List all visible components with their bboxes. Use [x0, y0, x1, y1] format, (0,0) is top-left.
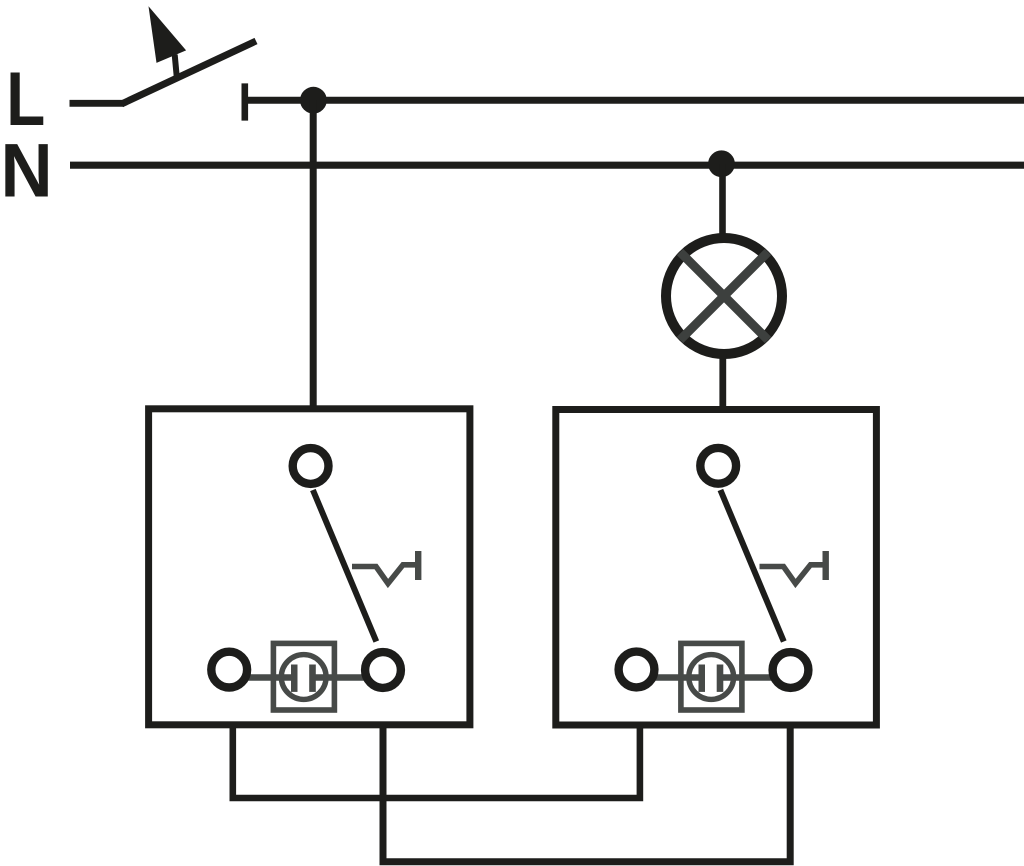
switch box 1 bottom-right terminal: [365, 652, 401, 688]
switch S1 fixed contact bar: [242, 83, 249, 120]
wire: box1 right terminal to box2 right terminal (corresponding wire 2): [383, 725, 790, 862]
switch box 1 glow-lamp indicator leads: [243, 674, 366, 681]
switch box 2 lever: [720, 490, 783, 642]
switch box 2 bottom-right terminal: [773, 652, 809, 688]
wire from lamp down to switch box 2: [719, 354, 726, 410]
switch box 2 rocker actuator icon: [760, 551, 826, 584]
wire from N node down to lamp: [719, 164, 726, 238]
node junction on L wire: [300, 87, 327, 114]
switch box 2 glow-lamp electrodes: [699, 665, 724, 692]
switch box 1 glow-lamp indicator (square + neon lamp): [273, 643, 334, 710]
switch box 1 bottom-left terminal: [211, 652, 247, 688]
switch S1 blade (open switch in L line): [122, 41, 257, 104]
node junction on N wire: [708, 150, 735, 177]
switch box 1 glow-lamp electrodes: [291, 665, 316, 692]
wire L left segment: [70, 100, 125, 107]
switch box 2 top terminal: [700, 448, 736, 484]
switch box 2 glow-lamp indicator leads: [651, 674, 774, 681]
switch box 1 lever: [313, 490, 376, 642]
switch box 2 outline: [556, 410, 877, 726]
wire L right segment: [248, 97, 1024, 104]
switch S1 actuator shaft: [175, 55, 177, 79]
lamp E1 (circle): [666, 238, 782, 354]
wire from L node down to switch box 1: [310, 100, 317, 409]
switch box 2 glow-lamp indicator (square + neon lamp): [681, 643, 742, 710]
switch box 1 outline: [149, 409, 470, 725]
switch box 1 top terminal: [293, 448, 329, 484]
svg-text:N: N: [0, 128, 52, 213]
switch S1 actuator arrow head: [149, 6, 187, 63]
wire N: [70, 162, 1024, 169]
switch box 1 rocker actuator icon: [352, 551, 418, 584]
lamp E1 cross stroke 1: [680, 252, 768, 340]
lamp E1 cross stroke 2: [680, 252, 768, 340]
wire: box1 left terminal to box2 left terminal (corresponding wire 1): [233, 725, 640, 799]
switch box 2 bottom-left terminal: [619, 652, 655, 688]
